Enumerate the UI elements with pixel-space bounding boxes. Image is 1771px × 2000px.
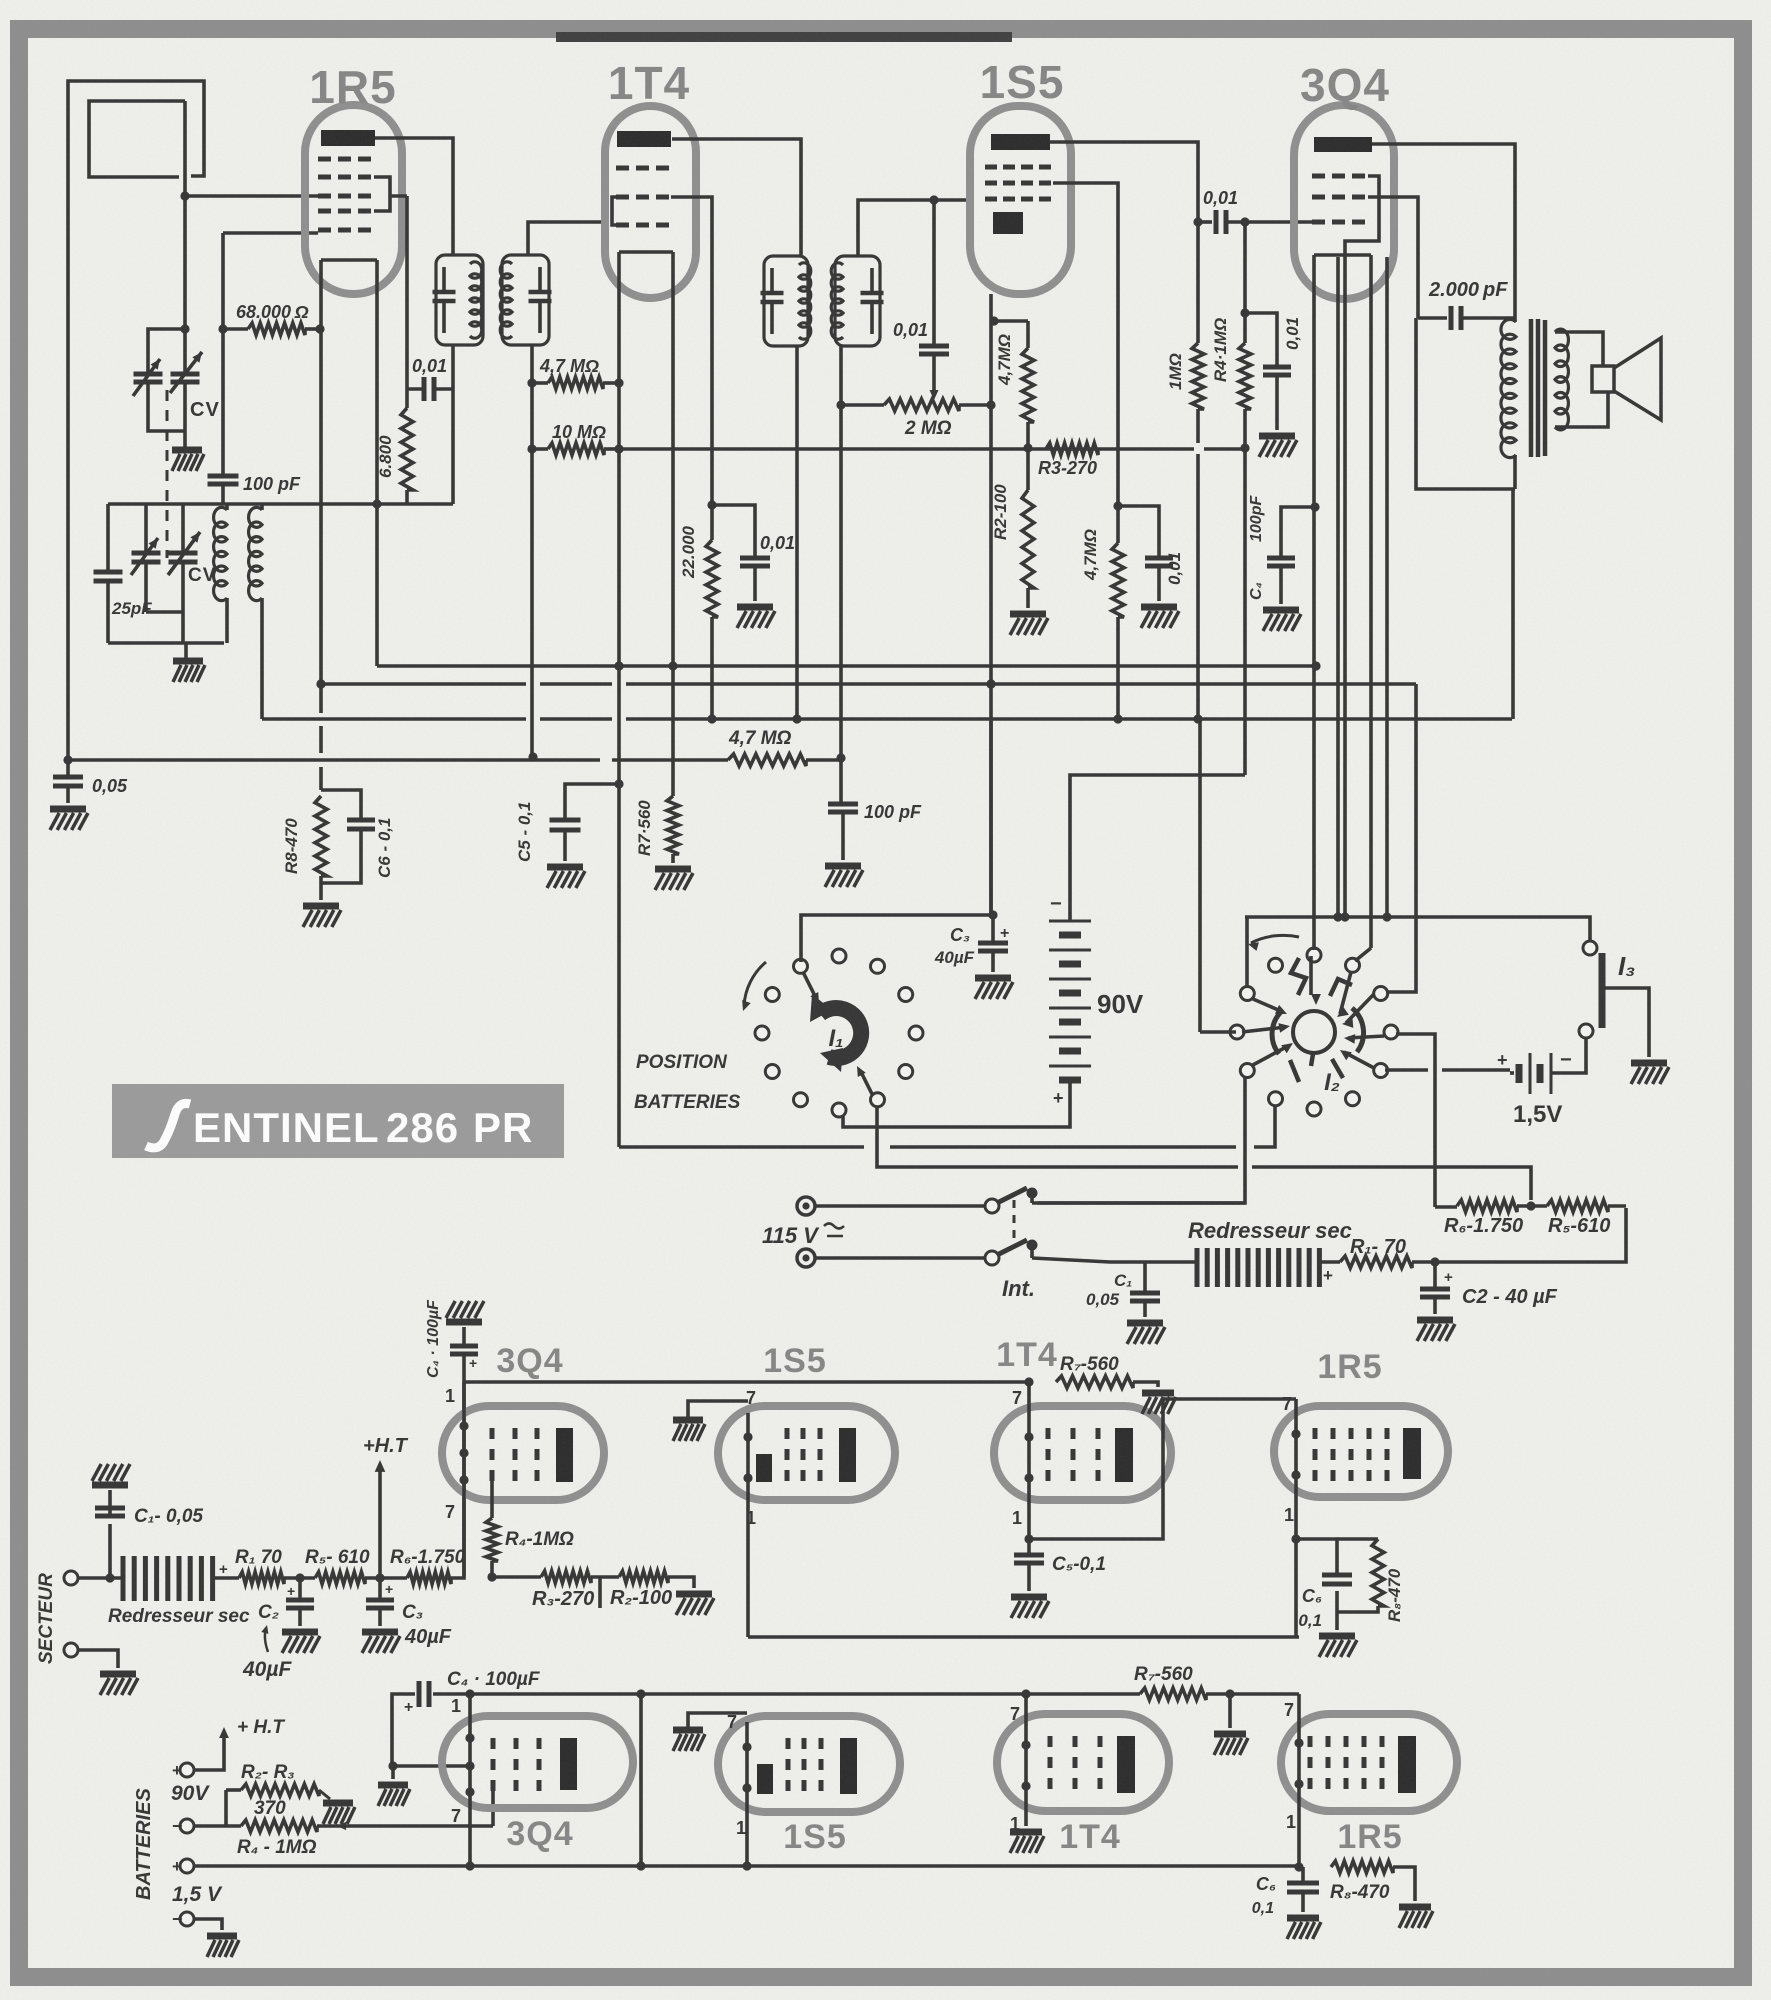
IF transformer T1 — [433, 255, 484, 345]
variable capacitor CV1b — [170, 329, 202, 431]
label R2-R3 — [241, 1762, 295, 1783]
pin7 V7 — [1010, 1704, 1020, 1724]
wire T4 top to diode — [858, 195, 968, 256]
wire C4 left leg — [388, 1694, 467, 1779]
tube V1 3Q4 row1 — [442, 1406, 604, 1500]
resistor R1-70 row1 — [239, 1572, 284, 1584]
label C4 row1 — [425, 1299, 442, 1378]
rotary switch I1 contacts — [755, 949, 923, 1117]
ground 0,05 — [50, 809, 88, 830]
plus C3 — [1000, 925, 1009, 942]
wire 1,5V minus — [194, 1919, 222, 1930]
label C3 row1 — [402, 1602, 423, 1623]
ground 1,5V minus — [207, 1936, 239, 1957]
capacitor C6 row2 — [1287, 1867, 1319, 1912]
ground C3 row1 — [362, 1632, 400, 1653]
ground below CV2 — [173, 643, 205, 682]
label C6 row2 — [1256, 1874, 1276, 1894]
wire U2 grid return — [614, 298, 623, 1147]
tube U1 1R5 envelope — [305, 105, 402, 294]
wire 1S5 filament down — [989, 719, 993, 915]
label R2-100 row1 — [610, 1587, 672, 1609]
tube V6 1S5 row2 — [718, 1716, 900, 1812]
label R3-270 — [1038, 458, 1097, 478]
ground C4 row1 — [446, 1301, 484, 1322]
label C4 — [1248, 582, 1265, 600]
wire V1 pins — [459, 1382, 468, 1577]
label 1S5 — [980, 56, 1065, 108]
label 4,7 Mohm — [539, 356, 599, 376]
ground C1 sec — [92, 1464, 130, 1485]
switch I3 bottom contact — [1579, 1024, 1593, 1038]
pin7 V4 — [1282, 1394, 1292, 1414]
tube U2 filament — [619, 252, 673, 796]
ground R2-100 — [1010, 614, 1048, 635]
tube V4 1R5 row1 — [1274, 1406, 1448, 1497]
row1 pin bus — [464, 1380, 1029, 1384]
resistor R6-1.750 row1 — [407, 1572, 451, 1584]
terminal secteur bottom — [64, 1643, 78, 1657]
label R6-1.750 row1 — [390, 1547, 466, 1568]
capacitor 0,05 — [53, 760, 83, 803]
label 22.000 — [679, 525, 698, 579]
wire I2 contact9 to Int — [1037, 1076, 1245, 1203]
switch Int top — [985, 1188, 1038, 1214]
ground C1 — [1127, 1323, 1165, 1344]
rotary switch I2 contacts — [1230, 948, 1398, 1116]
wire U2 screen — [671, 197, 712, 505]
variable capacitor CV2b — [168, 504, 200, 643]
antenna loop L1 — [68, 81, 204, 760]
terminal 115V top — [797, 1197, 815, 1215]
pin7 V5 — [451, 1806, 461, 1826]
label I1 — [828, 1025, 843, 1052]
label R1-70 row1 — [235, 1547, 282, 1568]
label 1R5 — [309, 61, 396, 113]
wire I3 to ground — [1604, 988, 1649, 1057]
output transformer primary — [1501, 319, 1516, 457]
label R7-560 row2 — [1134, 1664, 1193, 1685]
bus line D — [63, 754, 841, 766]
label 6.800 — [376, 435, 395, 478]
label 0,01 U3 — [1165, 552, 1184, 585]
rotary switch I2 rotor — [1272, 958, 1363, 1082]
capacitor C1-0,05 sec — [95, 1490, 125, 1578]
wire B+ to transformer — [1511, 489, 1515, 719]
label C2 row1 — [258, 1602, 279, 1623]
capacitor 0,01 U3 — [1118, 506, 1173, 601]
wire bias to I2 contact — [619, 1106, 1275, 1147]
wire I2 contact4 to R6 — [1396, 1034, 1435, 1207]
wire 115V bottom — [815, 1256, 986, 1260]
resistor R2-100 — [1022, 448, 1034, 608]
label R8-470 row1 — [1385, 1568, 1404, 1622]
capacitor 100pF AVC — [828, 804, 858, 860]
capacitor 25pF — [94, 504, 123, 643]
osc tank bottom rail — [108, 641, 224, 645]
resistor R3-270 — [1046, 443, 1098, 455]
variable capacitor CV1 frame — [148, 329, 185, 431]
ground below CV1 — [172, 431, 204, 471]
rotary switch I2 arrows — [1242, 962, 1384, 1068]
label HT row2 — [237, 1717, 285, 1738]
capacitor C4 100pF — [1267, 502, 1320, 604]
capacitor C1 0,05 — [1130, 1262, 1160, 1317]
wire U2 plate to T3 — [672, 139, 801, 256]
row2 bottom bus — [194, 1861, 1299, 1870]
capacitor 0,01 U2 screen — [712, 505, 770, 601]
capacitor C4 row1 — [450, 1327, 478, 1382]
label 1T4 row1 — [996, 1336, 1058, 1374]
label 100pF — [243, 474, 301, 494]
wire Int top to I2 — [1032, 1201, 1245, 1205]
ground V2 pin7 — [673, 1401, 748, 1441]
ground R2R3 — [323, 1803, 355, 1824]
pin1 V2 — [746, 1508, 756, 1528]
rotary switch I1 arm b — [857, 1066, 873, 1096]
label R4-1Mohm — [1211, 318, 1230, 382]
IF transformer T2 — [500, 255, 551, 345]
ground C4 — [1263, 610, 1301, 631]
pin1 V1 — [445, 1386, 455, 1406]
wire U2 pin to C5 — [565, 779, 624, 820]
ground R8 row2 — [1399, 1907, 1433, 1928]
label R3-270 row1 — [532, 1588, 594, 1610]
label C5-0,1 row1 — [1052, 1554, 1106, 1575]
resistor R1-70 — [1340, 1256, 1412, 1268]
label C1-0,05 — [134, 1506, 203, 1527]
pin1 V7 — [1010, 1814, 1020, 1834]
capacitor 0,01 osc grid — [407, 377, 453, 401]
tube U3 plate — [991, 134, 1050, 150]
label R4-1M row2 — [237, 1837, 317, 1858]
label C6-0,1 bias — [375, 818, 394, 878]
wire 3Q4 filament to I2 — [1312, 507, 1316, 950]
tube V5 3Q4 row2 — [442, 1716, 633, 1808]
tube V3 1T4 row1 — [994, 1406, 1171, 1500]
wire I2 contact5 to 1,5V — [1385, 1068, 1510, 1072]
wire I1 contact7 to R6R5 — [877, 1107, 1531, 1200]
wire I2 contact8 left — [1200, 1030, 1236, 1034]
wire T2 top to U2 grid — [528, 222, 605, 255]
wire V7 pins — [1021, 1694, 1030, 1826]
wire U1 grid1 — [405, 196, 409, 389]
tube V7 1T4 row2 — [997, 1714, 1169, 1811]
label R5-610 row1 — [305, 1547, 370, 1568]
tube U4 3Q4 envelope — [1294, 105, 1394, 299]
label CV2 — [188, 565, 216, 586]
label Redresseur sec — [1188, 1218, 1352, 1243]
tube U3 filament — [986, 294, 1028, 915]
ground C4 row2 — [378, 1785, 410, 1806]
switch I3 top contact — [1583, 941, 1597, 955]
HT arrow row1 — [375, 1460, 386, 1578]
wire 115V top — [815, 1204, 986, 1208]
capacitor C3 40uF — [978, 915, 1008, 972]
wire T4 bottom AVC — [836, 346, 845, 804]
tube U1 grid1 bracket — [374, 177, 407, 211]
label R2-100 — [991, 484, 1010, 540]
pin7 V6 — [727, 1712, 737, 1732]
capacitor 0,01 coupling — [1198, 210, 1245, 234]
wire U3 grid — [1053, 183, 1118, 502]
resistor R7-560 — [667, 796, 679, 863]
capacitor C5-0,1 row1 — [1014, 1539, 1044, 1591]
HT arrow row2 — [194, 1727, 229, 1770]
label 2 Mohm — [904, 418, 952, 439]
rectifier Redresseur sec — [1197, 1248, 1333, 1287]
power line — [1032, 1208, 1626, 1267]
ground C5 row1 — [1011, 1597, 1049, 1618]
row2 top bus — [433, 1689, 1299, 1698]
resistor R5-610 row1 — [315, 1572, 365, 1584]
arrow 40uF C2 — [261, 1625, 268, 1652]
capacitor C2 row1 — [286, 1578, 314, 1626]
label 0,01 diode — [893, 320, 928, 340]
wire V8 pins — [1294, 1694, 1303, 1872]
stub R3R2 — [598, 1577, 602, 1608]
label I2 — [1324, 1069, 1340, 1096]
label R7-560 — [635, 800, 654, 856]
label R1-70 — [1350, 1236, 1406, 1258]
title plate SENTINEL 286 PR — [112, 1084, 564, 1158]
junction R6 R5 — [1526, 1201, 1535, 1210]
label 4,7Mohm U3 grid — [1081, 529, 1100, 581]
label 1T4 — [608, 57, 690, 109]
terminal secteur top — [64, 1571, 78, 1585]
tube U1 grids — [318, 159, 371, 230]
wire V6 pins — [742, 1722, 751, 1866]
label 25pF — [111, 599, 152, 618]
ground 0,01 U4 grid — [1259, 436, 1297, 457]
tube U2 plate — [617, 131, 671, 147]
switch Int link — [1013, 1200, 1016, 1245]
tube U2 grids — [616, 168, 669, 225]
speaker voice coil — [1555, 332, 1614, 427]
label 0,01 U2 — [760, 533, 795, 553]
capacitor C5-0,1 top — [550, 820, 581, 861]
label I3 — [1618, 951, 1635, 981]
pin7 V3 — [1012, 1388, 1022, 1408]
capacitor 0,01 diode — [919, 200, 949, 372]
ground V6 pin7 — [673, 1713, 747, 1751]
tube U1 plate — [321, 130, 375, 146]
pin1 V8 — [1286, 1812, 1296, 1832]
resistor 4,7 Mohm — [527, 377, 623, 389]
wire T2 grid return — [528, 383, 537, 762]
wire V3 pin1 to V4 pin7 — [1029, 1399, 1296, 1539]
wire I2 contact7 down — [0, 0, 1, 1]
ground R7 — [655, 869, 693, 890]
ground 100pF AVC — [825, 866, 863, 887]
output transformer secondary — [1555, 329, 1568, 430]
label CV1 — [190, 399, 220, 421]
label 68.000 — [236, 302, 309, 322]
tube U1 filament — [316, 260, 381, 790]
label SECTEUR — [36, 1573, 57, 1664]
bus line C — [262, 717, 1512, 721]
capacitor C4 row2 — [404, 1681, 429, 1716]
label 1,5V row2 — [172, 1883, 223, 1906]
wire antenna to grid4 U1 — [185, 194, 318, 198]
label 3Q4 — [1300, 59, 1390, 111]
label R5-610 — [1548, 1215, 1610, 1237]
pin7 V1 — [445, 1502, 455, 1522]
capacitor 0,01 U4 grid — [1245, 313, 1291, 430]
label 2.000pF — [1428, 279, 1508, 301]
label POSITION — [636, 1052, 728, 1073]
label 40uF C2 — [242, 1658, 292, 1681]
label BATTERIES — [634, 1092, 741, 1113]
resistor R8-470 row2 — [1331, 1861, 1415, 1901]
resistor 1Mohm — [1192, 222, 1204, 724]
resistor R7-560 row1 — [1056, 1376, 1158, 1388]
ground 0,01 U2 — [737, 607, 775, 628]
variable capacitor CV2a — [131, 504, 183, 612]
label 4.7 Mohm AVC — [728, 728, 792, 749]
ground secteur — [100, 1674, 138, 1695]
wire I2 contact11 up — [1245, 917, 1590, 988]
tube U3 diode plate — [993, 212, 1023, 234]
tube U2 1T4 envelope — [605, 106, 696, 298]
label 100pF C4 — [1248, 495, 1265, 542]
resistor R5-610 — [1547, 1200, 1626, 1212]
label R8-470 row2 — [1330, 1882, 1390, 1903]
tube U4 grids — [1312, 176, 1365, 222]
label C4 row2 — [447, 1669, 541, 1690]
label 10 Mohm — [552, 422, 606, 442]
transformer core — [1531, 319, 1545, 457]
ground C2 row1 — [282, 1632, 320, 1653]
tube U3 grids — [985, 167, 1051, 199]
bus line A — [377, 661, 1321, 670]
terminal 115V bottom — [797, 1249, 815, 1267]
wire to U4 grid — [1240, 217, 1318, 226]
ground C6 row1 — [1319, 1636, 1357, 1657]
ground R8 bias — [303, 906, 341, 927]
resistor R8-470 bias — [315, 796, 327, 900]
wire T2 bottom — [530, 345, 534, 383]
ground V7 pin1 — [1010, 1832, 1044, 1853]
resistor 4,7Mohm U3 fil — [1022, 348, 1034, 453]
resistor R4-1M row1 — [486, 1473, 498, 1577]
pin1 V4 — [1284, 1505, 1294, 1525]
bus line B — [316, 679, 1416, 688]
wire row2 link1 — [639, 1694, 643, 1866]
wire R4 to 90V minus — [1070, 775, 1245, 905]
switch Int bottom — [985, 1240, 1038, 1266]
tube U4 filament — [1314, 255, 1392, 948]
ground C6 row2 — [1287, 1918, 1321, 1939]
label Redresseur sec row1 — [108, 1606, 250, 1627]
ground 0,01 U3 — [1141, 607, 1179, 628]
label C6 row1 — [1302, 1586, 1322, 1606]
capacitor C6-0,1 bias — [321, 790, 375, 883]
resistor 6.800 — [401, 389, 413, 504]
label C1 — [1114, 1271, 1132, 1290]
capacitor C2 40uF — [1420, 1262, 1453, 1314]
battery 90V — [1049, 905, 1091, 1089]
label C3 — [950, 925, 970, 945]
label R8-470 bias — [282, 818, 301, 874]
wire secteur bottom — [78, 1650, 118, 1668]
terminal 90V plus — [172, 1761, 194, 1780]
oscillator tank rail — [108, 502, 453, 506]
resistor 22.000 — [706, 500, 718, 723]
terminal 1,5V minus — [172, 1909, 194, 1929]
ground stub R7 row2 — [1228, 1694, 1232, 1728]
resistor R3-270 row1 — [487, 1571, 619, 1583]
label 4,7Mohm U3 fil — [995, 334, 1014, 386]
wire I2 contact3 — [1386, 684, 1416, 992]
resistor R8-470 row1 — [1337, 1539, 1384, 1612]
resistor 68.000 ohm — [218, 323, 324, 335]
wire U4 plate — [1372, 144, 1515, 322]
label 115V — [762, 1223, 844, 1248]
tube V8 1R5 row2 — [1281, 1714, 1457, 1811]
minus 90V — [1050, 893, 1062, 915]
variable capacitor CV1a — [133, 359, 163, 396]
IF transformer T4 — [831, 256, 883, 346]
arrow to pot wiper — [930, 372, 939, 400]
label C2 40uF — [1462, 1286, 1558, 1308]
ground C2 — [1417, 1320, 1455, 1341]
wire I1 contact to filament rail — [801, 910, 998, 962]
wire V4 pins — [1291, 1399, 1300, 1637]
label 0,01 coupling — [1203, 188, 1238, 208]
wire primary return loop — [1416, 318, 1515, 489]
plus 90V — [1053, 1088, 1064, 1108]
label C1 0,05 — [1086, 1290, 1120, 1309]
label C6 0,1 row1 — [1298, 1611, 1322, 1630]
wire U3 plate — [1050, 142, 1203, 227]
label 1T4 row2 — [1059, 1818, 1121, 1856]
wire V2 pins — [743, 1413, 752, 1637]
label HT row1 — [363, 1435, 409, 1457]
wire 90V plus to I1 — [843, 1089, 1070, 1127]
label 0,05 — [92, 776, 128, 796]
label 90V row2 — [171, 1782, 210, 1805]
plus 1,5V — [1497, 1050, 1508, 1070]
pin1 V6 — [736, 1818, 746, 1838]
wire I2 contact1 up — [1309, 956, 1313, 962]
label C3 40uF — [934, 948, 975, 967]
wire C6 to ground row1 — [1335, 1612, 1339, 1630]
wire U4 screen — [1368, 197, 1418, 318]
capacitor C3 row1 — [366, 1578, 394, 1626]
ground C5 top — [547, 867, 585, 888]
label R4-1M row1 — [505, 1529, 574, 1550]
wire I2 contact2 up — [1355, 948, 1371, 961]
ground R2 row1 — [676, 1594, 714, 1615]
label C3 40uF row1 — [404, 1626, 452, 1648]
terminal 1,5V plus — [172, 1857, 194, 1876]
label R7-560 row1 — [1060, 1354, 1119, 1375]
wire T1 secondary return — [451, 345, 455, 504]
wire T3 return — [792, 346, 801, 724]
speaker horn — [1614, 338, 1661, 420]
oscillator coil L2a — [214, 504, 227, 643]
rotary switch I1 rotor — [810, 994, 861, 1072]
resistor R7-560 row2 — [1140, 1688, 1206, 1700]
resistor R4-1Mohm — [1239, 222, 1251, 775]
label 90V — [1097, 989, 1144, 1019]
wire R4 into V5 — [491, 1787, 495, 1826]
label BATTERIES side — [133, 1787, 155, 1900]
label Int — [1002, 1276, 1035, 1301]
label C5-0,1 top — [515, 802, 534, 862]
rectifier sec row1 — [123, 1556, 228, 1601]
